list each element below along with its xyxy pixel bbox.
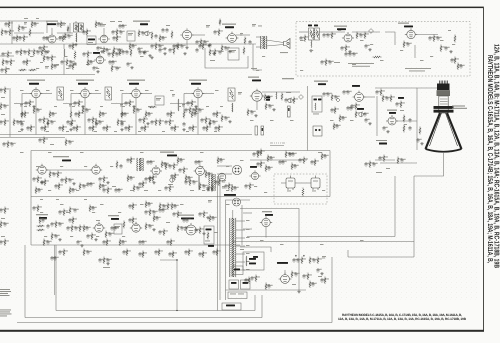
- capacitor: [408, 118, 411, 123]
- value label: [115, 48, 118, 51]
- value label: [40, 61, 43, 64]
- capacitor: [198, 212, 201, 217]
- value label: [64, 36, 67, 39]
- resistor: [39, 217, 41, 225]
- value label: [74, 44, 77, 47]
- resistor: [195, 107, 197, 115]
- value label: [124, 240, 126, 243]
- value label: [447, 46, 449, 49]
- capacitor: [138, 118, 141, 123]
- capacitor: [164, 120, 167, 125]
- value label: [366, 112, 368, 115]
- value label: [366, 33, 369, 36]
- capacitor: [52, 172, 55, 177]
- label: [266, 97, 270, 101]
- resistor: [149, 106, 157, 108]
- resistor: [28, 49, 30, 57]
- value label: [74, 188, 76, 191]
- value label: [151, 177, 154, 180]
- value label: [53, 222, 55, 225]
- capacitor: [281, 160, 284, 165]
- resistor: [44, 179, 46, 187]
- tube type 18FY6: [167, 155, 177, 157]
- vertical wire: [394, 176, 396, 237]
- value label: [208, 200, 212, 202]
- value label: [197, 108, 200, 111]
- value label: [72, 60, 74, 63]
- capacitor: [53, 256, 56, 261]
- capacitor: [198, 108, 201, 113]
- ground: [183, 52, 186, 55]
- value label: [122, 30, 124, 33]
- value label: [111, 232, 113, 235]
- resistor: [44, 125, 46, 133]
- wire: [265, 227, 267, 238]
- capacitor: [148, 176, 151, 181]
- wire: [63, 57, 65, 75]
- capacitor: [250, 110, 253, 115]
- capacitor: [256, 162, 259, 167]
- capacitor: [3, 222, 6, 227]
- value label: [48, 189, 51, 192]
- resistor: [158, 249, 160, 257]
- resistor: [66, 59, 68, 67]
- value label: [323, 278, 325, 281]
- capacitor: [0, 68, 3, 73]
- value label: [120, 188, 122, 191]
- value label: [85, 226, 88, 229]
- value label: [148, 105, 151, 108]
- value label: [79, 240, 81, 243]
- capacitor: [359, 33, 362, 38]
- capacitor: [187, 176, 190, 181]
- resistor: [69, 187, 71, 195]
- capacitor: [74, 112, 77, 117]
- value label: [187, 180, 189, 183]
- resistor: [265, 283, 267, 291]
- capacitor: [192, 180, 195, 185]
- value label: [53, 256, 55, 259]
- value label: [204, 44, 207, 47]
- label 2nd VIDEO IF AMP: [76, 80, 94, 81]
- value label: [115, 36, 117, 39]
- ground: [320, 272, 323, 275]
- capacitor: [101, 184, 104, 189]
- value label: [375, 162, 377, 165]
- value label: [144, 31, 146, 34]
- resistor: [92, 125, 94, 133]
- value label: [100, 47, 104, 50]
- ground: [132, 105, 135, 108]
- capacitor: [322, 92, 325, 97]
- capacitor: [206, 186, 209, 191]
- resistor: [214, 49, 216, 57]
- value label: [22, 50, 25, 53]
- value label: [20, 89, 24, 92]
- resistor: [209, 49, 211, 57]
- value label: [100, 24, 106, 26]
- value label: [197, 160, 199, 163]
- capacitor: [107, 52, 110, 57]
- capacitor: [88, 126, 91, 131]
- value label: [118, 66, 120, 69]
- ground: [46, 122, 49, 125]
- capacitor: [42, 36, 45, 41]
- value label: [267, 284, 270, 287]
- value label: [49, 240, 51, 243]
- value label: [270, 284, 272, 287]
- capacitor: [21, 26, 24, 31]
- value label: [341, 116, 344, 119]
- capacitor: [102, 126, 105, 131]
- resistor: [267, 155, 269, 163]
- value label: [64, 126, 67, 129]
- resistor: [43, 137, 45, 145]
- value label: [215, 89, 219, 92]
- resistor: [355, 103, 357, 111]
- capacitor: [298, 158, 301, 163]
- resistor: [345, 45, 347, 53]
- yoke feed wire pair: [217, 176, 219, 311]
- value label: [353, 104, 355, 107]
- resistor: [55, 221, 57, 229]
- resistor: [31, 21, 33, 29]
- value label: [113, 66, 116, 69]
- resistor: [71, 119, 73, 127]
- capacitor: [184, 180, 187, 185]
- resistor: [116, 29, 118, 37]
- value label: [105, 240, 107, 243]
- value label: [323, 154, 326, 157]
- capacitor: [54, 184, 57, 189]
- value label: [262, 55, 265, 58]
- resistor: [82, 107, 84, 115]
- resistor: [91, 233, 93, 241]
- value label: [230, 184, 233, 187]
- wire: [170, 103, 193, 105]
- label: [398, 23, 409, 24]
- wire: [347, 250, 349, 257]
- capacitor: [194, 160, 197, 165]
- value label: [44, 218, 46, 221]
- ground: [420, 142, 423, 145]
- value label: [140, 151, 144, 154]
- IF transformer T1a: [74, 23, 79, 32]
- ground: [163, 47, 166, 50]
- value label: [71, 208, 74, 211]
- value label: [292, 98, 294, 101]
- resistor: [129, 100, 131, 108]
- capacitor: [97, 22, 100, 27]
- value label: [186, 130, 189, 133]
- tube V10 2nd anode: [386, 115, 398, 125]
- tube V1 sound IF amp: [46, 33, 58, 43]
- value label: [122, 235, 125, 238]
- capacitor: [350, 104, 353, 109]
- vert output winding: [198, 176, 201, 190]
- capacitor: [125, 50, 128, 55]
- wire: [363, 96, 375, 98]
- value label: [220, 105, 223, 108]
- value label: [121, 24, 123, 27]
- value label: [157, 120, 160, 123]
- capacitor: [71, 188, 74, 193]
- capacitor: [158, 208, 161, 213]
- value label: [325, 33, 327, 36]
- ground: [368, 122, 371, 125]
- tube type 12CU5 video amp: [252, 80, 261, 82]
- speaker: [284, 39, 291, 49]
- resistor: [264, 94, 266, 102]
- value label: [420, 59, 424, 62]
- value label: [453, 58, 455, 61]
- yoke connector 2: [233, 198, 241, 206]
- value label: [299, 258, 301, 261]
- resistor: [29, 29, 31, 37]
- capacitor: [158, 48, 161, 53]
- value label: [71, 178, 73, 181]
- value label: [163, 162, 166, 165]
- value label: [105, 258, 108, 261]
- wire: [414, 45, 416, 58]
- resistor: [217, 157, 219, 165]
- capacitor: [267, 284, 270, 289]
- resistor: [71, 225, 73, 233]
- resistor: [132, 203, 134, 211]
- value label: [147, 202, 150, 205]
- value label: [207, 172, 210, 175]
- value label: [378, 90, 380, 93]
- value label: [210, 172, 212, 175]
- capacitor: [293, 164, 296, 169]
- resistor: [199, 227, 201, 235]
- value label: [251, 67, 257, 70]
- value label: [178, 105, 181, 108]
- capacitor: [85, 108, 88, 113]
- value label: [206, 40, 208, 43]
- value label: [71, 64, 73, 67]
- capacitor: [3, 104, 6, 109]
- value label: [260, 239, 264, 242]
- value label: [181, 168, 183, 171]
- label yoke: [240, 248, 244, 251]
- value label: [2, 104, 5, 107]
- resistor: [9, 29, 11, 37]
- value label: [90, 118, 92, 121]
- capacitor: [175, 44, 178, 49]
- capacitor: [168, 48, 171, 53]
- vertical wire: [176, 260, 178, 311]
- capacitor: [56, 22, 59, 27]
- value label: [35, 177, 37, 180]
- ground: [73, 62, 76, 65]
- alternate sound IF dashed box: [296, 22, 470, 77]
- flyback tap wire: [236, 220, 245, 222]
- value label: [63, 178, 65, 181]
- capacitor: [51, 112, 54, 117]
- value label: [33, 22, 36, 25]
- value label: [109, 258, 111, 261]
- wire: [192, 34, 205, 36]
- value label: [32, 126, 35, 129]
- value label: [210, 59, 215, 62]
- capacitor: [244, 184, 247, 189]
- capacitor: [172, 44, 175, 49]
- ratio detector box: [87, 36, 96, 45]
- plate wire: [89, 93, 101, 95]
- value label: [198, 40, 200, 43]
- value label: [84, 165, 87, 168]
- value label: [71, 218, 73, 221]
- value label: [191, 180, 194, 183]
- value label: [399, 158, 402, 161]
- value label: [120, 89, 124, 92]
- ground: [207, 44, 210, 47]
- capacitor: [179, 158, 182, 163]
- wire: [352, 31, 380, 33]
- capacitor: [248, 40, 251, 45]
- value label: [7, 30, 9, 33]
- ion trap magnet band 1: [434, 106, 454, 109]
- capacitor: [363, 112, 366, 117]
- resistor: [171, 203, 173, 211]
- small tube: [218, 173, 226, 181]
- capacitor: [213, 30, 216, 35]
- value label: [6, 208, 9, 211]
- value label: [50, 143, 54, 146]
- resistor: [152, 175, 154, 183]
- value label: [46, 130, 49, 133]
- resistor: [216, 111, 218, 119]
- value label: [53, 234, 56, 237]
- vertical video bus: [307, 86, 309, 151]
- label brightness: [357, 108, 364, 110]
- value label: [115, 226, 120, 228]
- resistor: [356, 32, 358, 40]
- value label: [61, 36, 63, 39]
- svg-text:RAYTHEON MODELS C-1615A, B, 16: RAYTHEON MODELS C-1615A, B, 16A, B, C-17…: [486, 55, 493, 263]
- tap label: [246, 236, 250, 239]
- resistor: [29, 69, 37, 71]
- value label: [128, 33, 133, 35]
- resistor: [72, 43, 74, 51]
- capacitor: [335, 124, 338, 129]
- quad coil box: [127, 31, 135, 41]
- value label: [158, 216, 160, 219]
- capacitor: [372, 162, 375, 167]
- capacitor: [86, 182, 89, 187]
- capacitor: [202, 126, 205, 131]
- value label: [220, 126, 223, 129]
- resistor: [260, 149, 262, 157]
- capacitor: [416, 138, 419, 143]
- value label: [222, 158, 224, 161]
- tube video IF 4: [192, 87, 205, 98]
- wire: [46, 169, 92, 171]
- capacitor: [40, 126, 43, 131]
- value label: [80, 151, 84, 154]
- junction: [176, 259, 177, 260]
- value label: [139, 186, 141, 189]
- value label: [2, 120, 4, 123]
- value label: [195, 108, 197, 111]
- value label: [430, 55, 433, 58]
- value label: [172, 112, 175, 115]
- resistor: [7, 51, 9, 59]
- resistor: [218, 29, 220, 37]
- tube video IF 1: [30, 87, 43, 98]
- capacitor: [172, 212, 175, 217]
- capacitor: [138, 182, 141, 187]
- resistor: [382, 95, 384, 103]
- value label: [35, 108, 38, 111]
- resistor: [78, 111, 80, 119]
- resistor: [177, 43, 179, 51]
- value label: [253, 276, 255, 279]
- ground: [74, 43, 77, 46]
- CRT funnel: [426, 113, 462, 152]
- value label: [62, 23, 66, 25]
- tube type 25L6GT: [225, 26, 234, 28]
- ground: [100, 50, 103, 53]
- label HV RECT: [262, 211, 272, 212]
- resistor: [72, 63, 74, 71]
- value label: [45, 138, 48, 141]
- capacitor: [18, 36, 21, 41]
- capacitor: [119, 164, 122, 169]
- capacitor: [119, 30, 122, 35]
- capacitor: [76, 240, 79, 245]
- label SOUND IF AMP: [46, 21, 58, 22]
- capacitor: [22, 60, 25, 65]
- capacitor: [67, 34, 70, 39]
- video det can T5: [228, 88, 235, 101]
- grid wire: [22, 93, 32, 95]
- capacitor: [291, 152, 294, 157]
- value label: [171, 120, 174, 123]
- grid wire: [71, 93, 81, 95]
- tube type 17EW8: [78, 83, 88, 85]
- value label: [51, 112, 54, 115]
- resistor: [87, 59, 89, 67]
- capacitor: [385, 96, 388, 101]
- capacitor: [54, 234, 57, 239]
- capacitor: [294, 272, 297, 277]
- value label: [220, 180, 223, 183]
- focus control box: [222, 303, 241, 310]
- value label: [174, 252, 177, 255]
- value label: [226, 189, 229, 192]
- capacitor: [348, 52, 351, 57]
- capacitor: [86, 234, 89, 239]
- value label: [169, 204, 172, 207]
- capacitor: [193, 112, 196, 117]
- value label: [290, 119, 294, 122]
- value label: [161, 48, 163, 51]
- value label: [138, 130, 141, 133]
- value label: [150, 112, 152, 115]
- tap label: [246, 252, 250, 255]
- value label: [238, 293, 244, 296]
- capacitor: [342, 90, 345, 95]
- value label: [180, 203, 184, 206]
- capacitor: [170, 174, 173, 179]
- label SYNC SEP + SYNC AMP: [53, 156, 69, 157]
- value label: [9, 52, 12, 55]
- resistor: [174, 125, 176, 133]
- value label: [36, 17, 39, 20]
- capacitor: [137, 47, 140, 52]
